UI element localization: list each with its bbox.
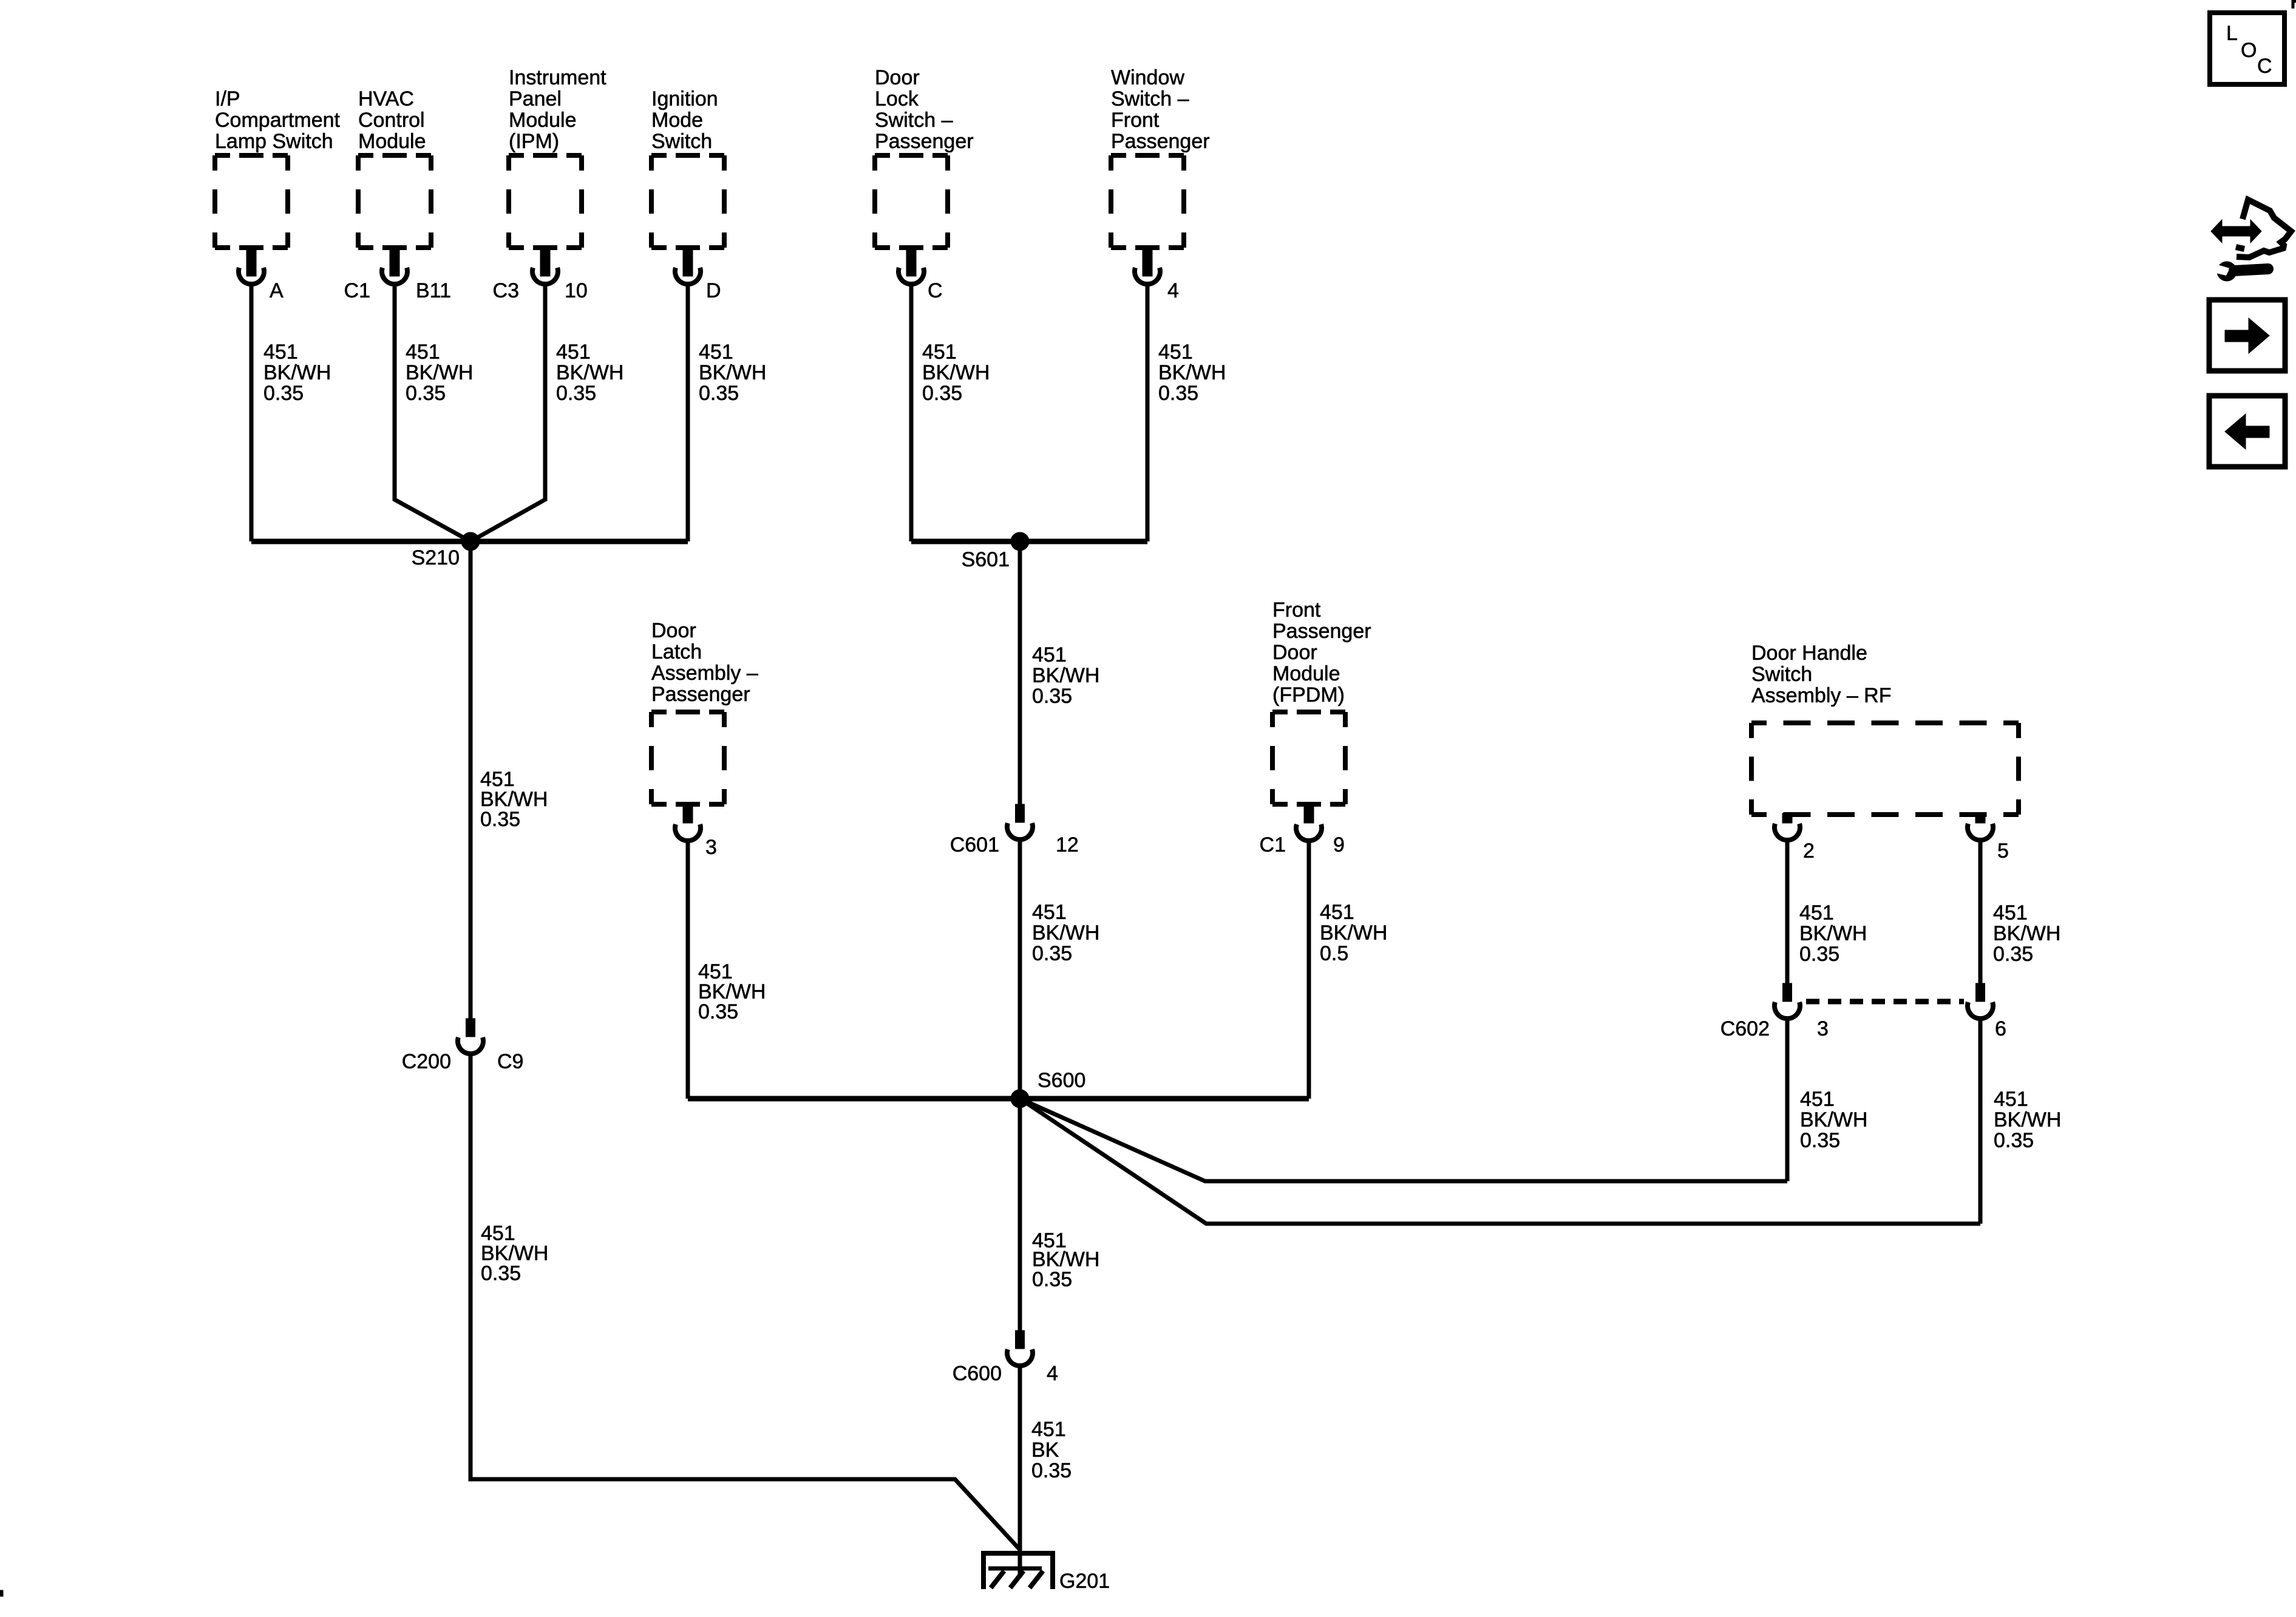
svg-text:S600: S600 [1038, 1069, 1085, 1092]
svg-text:Switch –: Switch – [875, 109, 953, 132]
svg-text:0.35: 0.35 [1032, 685, 1072, 708]
svg-text:Switch: Switch [1751, 663, 1812, 686]
svg-text:451: 451 [922, 341, 957, 364]
svg-text:Switch: Switch [651, 130, 712, 153]
svg-text:G201: G201 [1059, 1570, 1110, 1593]
svg-text:Passenger: Passenger [651, 683, 750, 706]
svg-text:Control: Control [358, 109, 425, 132]
svg-text:Latch: Latch [651, 640, 702, 663]
svg-text:451: 451 [1799, 901, 1834, 924]
svg-text:BK/WH: BK/WH [1993, 922, 2060, 945]
svg-text:451: 451 [263, 341, 298, 364]
svg-text:Lamp Switch: Lamp Switch [215, 130, 333, 153]
svg-text:C: C [928, 279, 943, 302]
svg-text:O: O [2241, 39, 2257, 62]
svg-text:C200: C200 [402, 1050, 451, 1073]
svg-text:0.35: 0.35 [699, 382, 739, 405]
svg-text:Door: Door [1272, 641, 1317, 664]
svg-text:C3: C3 [493, 279, 519, 302]
svg-text:451: 451 [1032, 643, 1067, 666]
svg-text:D: D [706, 279, 721, 302]
svg-text:4: 4 [1167, 279, 1179, 302]
svg-text:0.5: 0.5 [1320, 942, 1348, 965]
svg-text:451: 451 [1320, 901, 1354, 924]
svg-text:0.35: 0.35 [481, 1262, 521, 1285]
svg-text:C600: C600 [953, 1362, 1002, 1385]
svg-text:12: 12 [1056, 833, 1079, 856]
svg-text:Passenger: Passenger [875, 130, 974, 153]
svg-text:9: 9 [1333, 833, 1345, 856]
svg-text:0.35: 0.35 [1800, 1129, 1840, 1152]
svg-text:BK/WH: BK/WH [1032, 921, 1099, 944]
svg-text:C1: C1 [1260, 833, 1286, 856]
svg-text:0.35: 0.35 [1994, 1129, 2034, 1152]
svg-text:Module: Module [1272, 662, 1340, 685]
svg-text:451: 451 [406, 341, 440, 364]
svg-text:C601: C601 [950, 833, 999, 856]
svg-text:0.35: 0.35 [263, 382, 304, 405]
svg-text:Window: Window [1111, 66, 1184, 89]
svg-text:C602: C602 [1720, 1017, 1770, 1040]
svg-text:Lock: Lock [875, 87, 919, 110]
svg-text:10: 10 [565, 279, 588, 302]
svg-text:Passenger: Passenger [1272, 620, 1371, 643]
svg-text:451: 451 [556, 341, 591, 364]
svg-text:Door: Door [651, 619, 696, 642]
svg-text:451: 451 [1994, 1088, 2028, 1111]
svg-text:(FPDM): (FPDM) [1272, 683, 1345, 707]
svg-text:Panel: Panel [509, 87, 562, 110]
svg-text:451: 451 [1031, 1418, 1066, 1441]
svg-text:0.35: 0.35 [1031, 1459, 1072, 1482]
svg-text:Module: Module [358, 130, 426, 153]
svg-text:Assembly –: Assembly – [651, 662, 758, 685]
svg-text:5: 5 [1997, 839, 2009, 863]
svg-text:0.35: 0.35 [1032, 1268, 1072, 1291]
svg-text:451: 451 [1158, 341, 1193, 364]
svg-text:0.35: 0.35 [1032, 942, 1072, 965]
svg-text:Assembly – RF: Assembly – RF [1751, 684, 1892, 707]
svg-text:451: 451 [1032, 901, 1067, 924]
svg-text:Compartment: Compartment [215, 109, 341, 132]
svg-text:BK: BK [1031, 1439, 1059, 1462]
svg-text:BK/WH: BK/WH [263, 361, 331, 384]
svg-text:BK/WH: BK/WH [1800, 1108, 1867, 1131]
svg-text:Module: Module [509, 109, 577, 132]
svg-text:451: 451 [1800, 1088, 1835, 1111]
svg-text:BK/WH: BK/WH [1158, 361, 1226, 384]
svg-text:C9: C9 [497, 1050, 523, 1073]
svg-text:Mode: Mode [651, 109, 703, 132]
svg-text:HVAC: HVAC [358, 87, 414, 110]
svg-text:Front: Front [1111, 109, 1160, 132]
svg-text:Instrument: Instrument [509, 66, 606, 89]
svg-text:4: 4 [1047, 1362, 1058, 1385]
svg-text:B11: B11 [416, 279, 451, 302]
svg-text:Switch –: Switch – [1111, 87, 1189, 110]
svg-text:BK/WH: BK/WH [1799, 922, 1867, 945]
svg-text:C1: C1 [344, 279, 370, 302]
svg-text:3: 3 [1817, 1017, 1829, 1040]
svg-text:0.35: 0.35 [922, 382, 962, 405]
svg-text:3: 3 [705, 836, 717, 859]
svg-text:Passenger: Passenger [1111, 130, 1210, 153]
svg-text:C: C [2257, 55, 2272, 78]
svg-text:0.35: 0.35 [698, 1000, 738, 1023]
svg-text:S601: S601 [962, 548, 1010, 571]
svg-text:0.35: 0.35 [1993, 943, 2033, 966]
svg-text:0.35: 0.35 [1158, 382, 1198, 405]
svg-text:Ignition: Ignition [651, 87, 718, 110]
svg-text:BK/WH: BK/WH [699, 361, 766, 384]
svg-text:I/P: I/P [215, 87, 240, 110]
svg-text:0.35: 0.35 [1799, 943, 1839, 966]
svg-text:2: 2 [1803, 839, 1815, 863]
svg-text:S210: S210 [412, 546, 460, 569]
svg-text:BK/WH: BK/WH [1994, 1108, 2061, 1131]
svg-text:BK/WH: BK/WH [406, 361, 473, 384]
svg-text:A: A [270, 279, 284, 302]
svg-text:BK/WH: BK/WH [1320, 921, 1387, 944]
svg-text:BK/WH: BK/WH [1032, 664, 1099, 687]
svg-text:451: 451 [1993, 901, 2028, 924]
svg-text:0.35: 0.35 [480, 808, 520, 831]
svg-text:451: 451 [699, 341, 733, 364]
svg-text:0.35: 0.35 [406, 382, 446, 405]
svg-text:Front: Front [1272, 598, 1321, 622]
svg-text:(IPM): (IPM) [509, 130, 559, 153]
svg-text:Door: Door [875, 66, 920, 89]
svg-text:Door Handle: Door Handle [1751, 642, 1867, 665]
svg-text:L: L [2226, 22, 2238, 45]
svg-text:0.35: 0.35 [556, 382, 596, 405]
svg-text:BK/WH: BK/WH [922, 361, 990, 384]
svg-text:BK/WH: BK/WH [556, 361, 623, 384]
svg-text:6: 6 [1995, 1017, 2006, 1040]
